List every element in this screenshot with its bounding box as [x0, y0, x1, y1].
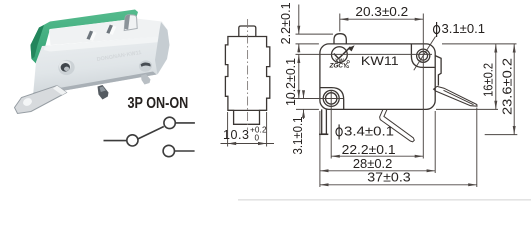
ext line body left down [319, 111, 321, 187]
left terminal bottom edge [319, 133, 328, 135]
photo: body front face [33, 36, 167, 96]
svg-text:KW11: KW11 [361, 54, 399, 68]
photo: left hole inner light [64, 66, 70, 71]
plunger button top [334, 34, 346, 44]
side view body bottom inner line [228, 109, 267, 111]
ext line bottom hole center [291, 98, 343, 100]
svg-text:3.1±0.1: 3.1±0.1 [291, 116, 305, 154]
photo: white top face [49, 19, 168, 46]
photo: plunger button [124, 15, 137, 31]
phi symbol for 3.1 [434, 22, 440, 37]
left terminal tab [322, 109, 327, 134]
logo flag tip [348, 45, 355, 51]
ext line lever tip down [476, 108, 478, 188]
node upper contact [164, 117, 175, 128]
logo circle [332, 47, 348, 63]
node common contact [127, 135, 138, 146]
dim line 28 [320, 170, 435, 172]
dim line 37 [320, 184, 477, 186]
ext line bottom hole center vertical [330, 90, 332, 159]
top-right hole boss [411, 44, 435, 67]
phi symbol for 3.4 [336, 124, 342, 139]
ext line body bottom left [296, 108, 319, 110]
svg-text:3.1±0.1: 3.1±0.1 [442, 22, 486, 36]
photo: lever top highlight [53, 86, 67, 96]
ext line top hole center across body [296, 53, 433, 55]
dim line 20.3 [340, 18, 424, 20]
photo: front face top highlight [44, 36, 166, 52]
dim line 3.1 with outside arrows [303, 91, 305, 99]
svg-text:3.4±0.1: 3.4±0.1 [344, 125, 394, 139]
svg-text:28±0.2: 28±0.2 [353, 157, 393, 171]
svg-text:3P ON-ON: 3P ON-ON [128, 95, 189, 112]
photo: left mounting hole [60, 62, 71, 72]
ext line body top right [442, 43, 517, 45]
logo check mark [334, 47, 351, 59]
dim line 10.2 [298, 54, 300, 98]
photo: green base back strip [31, 10, 139, 69]
svg-text:22.2±0.1: 22.2±0.1 [342, 143, 396, 157]
bottom-left hole outer (phi 3.4) [323, 90, 339, 106]
photo: left mounting hole rim highlight [58, 60, 72, 73]
logo R mark [347, 61, 349, 63]
dim line 22.2 [331, 155, 423, 157]
right lever blade [434, 86, 477, 106]
photo: metal lever [15, 86, 67, 114]
ext line button center [339, 14, 341, 32]
wire switch lever [138, 127, 164, 139]
top-right hole inner [419, 51, 428, 60]
dim line 2.2 with outside arrows [298, 5, 300, 35]
photo: top slot 1 [87, 31, 94, 40]
main body [320, 44, 435, 110]
svg-text:37±0.3: 37±0.3 [367, 171, 411, 185]
photo: right end face [155, 22, 170, 75]
ext line hole center vertical [422, 14, 424, 159]
side view centerline [247, 19, 249, 130]
ext line terminal bottom right [485, 134, 518, 136]
bottom-left hole boss [320, 88, 344, 110]
ext line body top left [296, 43, 319, 45]
svg-text:0: 0 [255, 133, 260, 142]
side view plunger [239, 26, 256, 37]
photo: right mounting hole recess [138, 59, 153, 72]
photo: left mounting hole recess [57, 59, 76, 77]
photo: top slot 2 bevel [110, 26, 117, 35]
svg-text:10.3: 10.3 [223, 128, 249, 142]
middle terminal pin [380, 109, 415, 141]
top-right hole outer (phi 3.1) [417, 49, 430, 62]
photo: middle terminal highlight [100, 87, 106, 93]
dim line 23.6 [513, 44, 515, 135]
side view dimension line 10.3 [221, 143, 275, 145]
wire common lead [104, 140, 127, 142]
photo: middle terminal [98, 85, 109, 100]
photo: plunger left shade [124, 15, 130, 30]
svg-text:16±0.2: 16±0.2 [481, 63, 495, 97]
logo ZGCY R mark [347, 66, 349, 68]
side view extension lines [227, 112, 229, 147]
photo: right terminal faint [141, 74, 151, 85]
phi 3.1 leader [414, 37, 436, 71]
photo: right mounting hole dark crescent [141, 62, 151, 66]
faint table rule bottom right [238, 199, 531, 201]
side view body outline with mounting ear tabs [225, 37, 269, 125]
svg-text:2.2±0.1: 2.2±0.1 [279, 2, 293, 44]
wire upper lead [175, 122, 195, 124]
wire lower lead [175, 150, 195, 152]
ext line body bottom right [436, 108, 498, 110]
photo: top slot 2 [106, 25, 113, 34]
photo: top slot 1 bevel [90, 32, 97, 41]
svg-text:ZGCY: ZGCY [329, 63, 348, 70]
right terminal tab profile [435, 56, 441, 86]
photo: bottom edge shading [33, 72, 157, 97]
node lower contact [163, 145, 174, 156]
photo: green left end face shade [31, 25, 45, 59]
photo: lever hole [22, 97, 34, 108]
right lever blade inner line [444, 90, 474, 104]
bottom-left hole inner [326, 93, 337, 104]
dim line 16 [495, 44, 497, 110]
ext line button top [296, 33, 334, 35]
ext line body right down [434, 111, 436, 173]
svg-text:23.6±0.2: 23.6±0.2 [500, 58, 514, 115]
svg-text:20.3±0.2: 20.3±0.2 [355, 5, 408, 19]
